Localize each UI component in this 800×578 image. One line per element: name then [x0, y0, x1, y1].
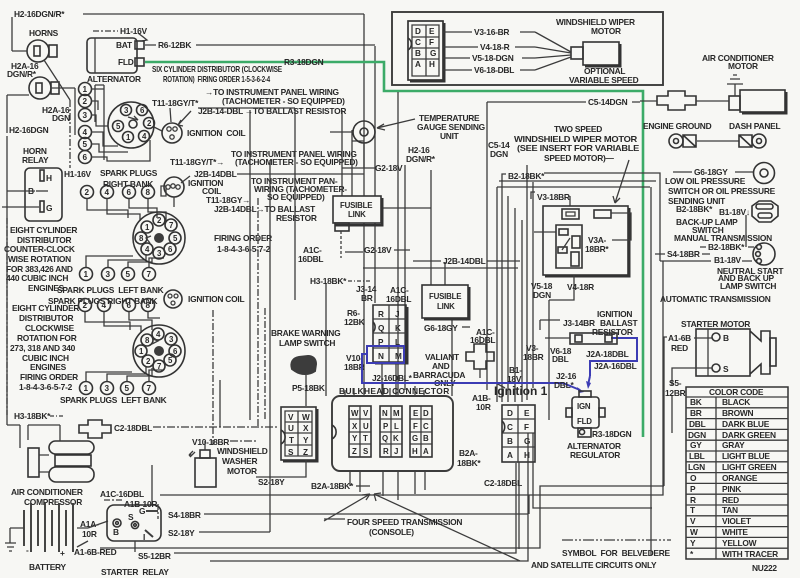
node WINDSHIELD WIPER MOTOR label [556, 17, 635, 36]
svg-text:J2B-14DBL: J2B-14DBL [443, 256, 486, 266]
svg-text:J2A-18DBL: J2A-18DBL [586, 349, 629, 359]
svg-text:273, 318 AND 340: 273, 318 AND 340 [10, 343, 76, 353]
svg-text:N: N [382, 409, 388, 418]
spark plug terminals 1357 row lower [80, 382, 156, 395]
svg-text:BR: BR [690, 408, 702, 418]
svg-text:B1-18V↓: B1-18V↓ [719, 207, 750, 217]
wire blue ballast branch [586, 338, 637, 389]
svg-text:3: 3 [83, 111, 88, 120]
bulkhead connector main [332, 396, 453, 471]
node AIR CONDITIONER MOTOR label [702, 53, 774, 71]
svg-text:12BR: 12BR [665, 388, 686, 398]
svg-text:VARIABLE SPEED: VARIABLE SPEED [569, 75, 639, 85]
color code table [686, 387, 788, 559]
svg-text:BAT: BAT [116, 40, 133, 50]
svg-text:S2-18Y: S2-18Y [258, 477, 285, 487]
ignition coil second [161, 176, 190, 207]
svg-text:A: A [415, 60, 421, 69]
svg-text:6: 6 [127, 301, 132, 310]
connector RJQKPLNM [373, 305, 407, 396]
node STARTER RELAY label [101, 567, 169, 577]
ground symbol engine [669, 134, 696, 148]
svg-text:ALTERNATOR: ALTERNATOR [87, 74, 141, 84]
svg-text:U: U [288, 424, 294, 433]
svg-text:3: 3 [105, 384, 110, 393]
note eight cylinder ccw block [4, 225, 77, 293]
svg-text:SPARK PLUGS LEFT BANK: SPARK PLUGS LEFT BANK [57, 285, 164, 295]
svg-text:BRAKE WARNING: BRAKE WARNING [271, 328, 340, 338]
node S2-18Y label vw [258, 477, 285, 487]
svg-text:4: 4 [105, 188, 110, 197]
svg-text:18V: 18V [507, 374, 522, 384]
note IGNITION BALLAST RESISTOR [592, 309, 638, 337]
svg-text:DASH PANEL: DASH PANEL [729, 121, 780, 131]
brake warning lamp switch [291, 356, 316, 406]
neutral start switch [753, 243, 775, 265]
wire J2B-14-DBL run [198, 108, 520, 261]
node S4-18BR label right [655, 204, 710, 261]
svg-text:6: 6 [127, 188, 132, 197]
spark plug terminals 2468 row lower [79, 299, 155, 312]
svg-text:RESISTOR: RESISTOR [276, 213, 317, 223]
svg-text:X: X [303, 424, 309, 433]
node OPTIONAL VARIABLE SPEED label [569, 66, 639, 85]
node R3-18DGN label [284, 57, 324, 67]
svg-text:DGN: DGN [490, 149, 508, 159]
wire middle vertical trunks [250, 92, 533, 463]
svg-text:C5-14DGN: C5-14DGN [588, 97, 628, 107]
svg-text:LINK: LINK [437, 302, 455, 311]
svg-text:1: 1 [84, 270, 89, 279]
svg-text:RED: RED [671, 343, 688, 353]
svg-text:SYMBOL FOR BELVEDERE: SYMBOL FOR BELVEDERE [562, 548, 671, 558]
fusible link lower [422, 285, 469, 319]
svg-text:L: L [394, 422, 399, 431]
svg-text:G: G [412, 434, 418, 443]
node J2B-14DBL ballast note 2 [214, 204, 317, 223]
svg-text:H2-16DGN/R*: H2-16DGN/R* [14, 9, 65, 19]
svg-text:H1-16V: H1-16V [64, 169, 92, 179]
svg-text:+: + [60, 548, 65, 558]
node A1B-10R label mid [472, 393, 491, 412]
note VALIANT AND BARRACUDA ONLY [413, 352, 505, 388]
svg-text:BK: BK [690, 397, 702, 407]
node R3-18DGN label regulator [592, 429, 632, 439]
svg-text:EIGHT CYLINDER: EIGHT CYLINDER [10, 225, 77, 235]
svg-text:T11-18GY/T*→: T11-18GY/T*→ [170, 157, 224, 167]
svg-text:A: A [423, 447, 429, 456]
svg-text:LBL: LBL [689, 451, 705, 461]
node six cylinder distributor note [152, 64, 283, 84]
node V6-18 DBL label [550, 346, 572, 364]
svg-text:J2A-16DBL: J2A-16DBL [594, 361, 637, 371]
svg-text:N: N [378, 352, 384, 361]
node R6-12BK label mid [344, 308, 365, 327]
node V5-18 DGN label [531, 281, 553, 300]
node ignition coil stacked label [188, 178, 223, 196]
svg-text:DARK BLUE: DARK BLUE [722, 419, 770, 429]
node J2B-14DBL label second [194, 169, 364, 179]
svg-text:DGN/R*: DGN/R* [7, 69, 37, 79]
svg-text:WINDSHIELD: WINDSHIELD [217, 446, 268, 456]
node to instrument panel note 3 [251, 176, 347, 202]
svg-text:5: 5 [83, 140, 88, 149]
node B1- 18V label [507, 365, 522, 384]
backup lamp switch [752, 201, 778, 222]
svg-text:P5-18BK: P5-18BK [292, 383, 325, 393]
svg-text:7: 7 [147, 270, 152, 279]
node H2A-16 DGN label [42, 105, 70, 123]
svg-text:C2-18DBL: C2-18DBL [114, 423, 152, 433]
svg-text:V3-16-BR: V3-16-BR [474, 27, 509, 37]
wire horn leads [7, 51, 75, 168]
svg-text:PINK: PINK [722, 484, 741, 494]
svg-text:Y: Y [303, 436, 309, 445]
node NU222 label [752, 563, 777, 573]
node V6-18-DBL label [474, 65, 514, 75]
node FIRING ORDER label [214, 233, 272, 254]
svg-text:B: B [723, 333, 729, 343]
svg-text:V: V [288, 413, 294, 422]
svg-text:B2-18BK*: B2-18BK* [508, 171, 545, 181]
node A1B-10R label relay [104, 499, 158, 519]
svg-text:J3-14BR: J3-14BR [563, 318, 595, 328]
bulkhead grid NMPLQKRJ [380, 406, 402, 457]
svg-text:VIOLET: VIOLET [722, 516, 752, 526]
node S2-18Y label relay [168, 463, 270, 538]
svg-text:R3-18DGN: R3-18DGN [284, 57, 324, 67]
svg-text:SO EQUIPPED): SO EQUIPPED) [267, 192, 325, 202]
node A1C-16DBL label mid [386, 285, 411, 304]
node SPARK PLUGS LEFT BANK label [57, 285, 164, 295]
svg-text:ENGINES: ENGINES [30, 362, 67, 372]
svg-text:(TACHOMETER - SO EQUIPPED): (TACHOMETER - SO EQUIPPED) [235, 157, 358, 167]
svg-text:D: D [415, 27, 421, 36]
node SPARK PLUGS RIGHT BANK label 2 [48, 296, 157, 306]
node B2-18BK* label manual [700, 242, 754, 252]
svg-text:E: E [429, 27, 435, 36]
svg-text:Q: Q [378, 324, 385, 333]
node HORN RELAY label [22, 146, 49, 165]
node Ignition 1 blue label [494, 384, 548, 398]
svg-text:B1-18V: B1-18V [714, 255, 742, 265]
node V3-16-BR label [474, 27, 509, 37]
wire dash-dot trunks [152, 198, 265, 505]
svg-text:V4-18-R: V4-18-R [480, 42, 510, 52]
svg-text:LAMP SWITCH: LAMP SWITCH [720, 281, 776, 291]
svg-text:TWO SPEED: TWO SPEED [554, 124, 602, 134]
resistor ignition ballast [545, 333, 617, 344]
svg-text:G: G [46, 203, 52, 213]
horn upper [27, 40, 57, 62]
svg-text:A1-6B: A1-6B [668, 333, 691, 343]
svg-text:S: S [128, 512, 134, 522]
svg-text:R: R [383, 447, 389, 456]
node T11-18GY/T* label [152, 98, 199, 108]
svg-text:V6-18-DBL: V6-18-DBL [474, 65, 514, 75]
node J3-14BR label right [540, 318, 595, 330]
svg-text:ROTATION FOR: ROTATION FOR [17, 333, 77, 343]
node ALTERNATOR label [87, 74, 141, 84]
svg-text:AUTOMATIC TRANSMISSION: AUTOMATIC TRANSMISSION [660, 294, 771, 304]
svg-text:18BK*: 18BK* [457, 458, 481, 468]
wire chain to distributor cap [91, 85, 150, 161]
svg-text:5: 5 [125, 384, 130, 393]
fusible link upper [333, 196, 382, 258]
svg-text:BULKHEAD CONNECTOR: BULKHEAD CONNECTOR [339, 386, 449, 396]
svg-text:DARK GREEN: DARK GREEN [722, 430, 776, 440]
node B2A- 18BK* label right [457, 448, 481, 468]
svg-text:FUSIBLE: FUSIBLE [340, 201, 372, 210]
node A1-6B RED label [664, 333, 712, 486]
svg-text:GRAY: GRAY [722, 440, 745, 450]
svg-text:STARTER MOTOR: STARTER MOTOR [681, 319, 750, 329]
svg-text:SWITCH OR OIL PRESSURE: SWITCH OR OIL PRESSURE [668, 186, 776, 196]
svg-text:D: D [423, 409, 429, 418]
node V3-18BR label [531, 192, 570, 210]
node BAT terminal label [116, 40, 133, 50]
svg-text:S: S [363, 447, 368, 456]
svg-text:FIRING ORDER: FIRING ORDER [214, 233, 272, 243]
svg-text:FOUR SPEED TRANSMISSION: FOUR SPEED TRANSMISSION [347, 517, 462, 527]
svg-text:V5-18-DGN: V5-18-DGN [472, 53, 514, 63]
svg-text:6: 6 [83, 153, 88, 162]
svg-text:G2-18V: G2-18V [364, 245, 392, 255]
wire insert leads [443, 32, 571, 70]
svg-text:H1-16V: H1-16V [120, 26, 148, 36]
wire R6-12BK from BAT [145, 45, 375, 303]
node G2-18V label second [363, 245, 518, 268]
ignition switch connector DECFBGAH [502, 405, 535, 462]
svg-text:12BK: 12BK [344, 317, 365, 327]
svg-text:G: G [524, 437, 530, 446]
node A1C-16DBL label relay [100, 489, 144, 499]
svg-text:B: B [507, 437, 513, 446]
node TEMPERATURE GAUGE SENDING UNIT label [417, 113, 485, 141]
insert box optional variable speed [392, 12, 663, 85]
svg-text:Y: Y [690, 538, 696, 548]
svg-text:YELLOW: YELLOW [722, 538, 757, 548]
svg-text:LINK: LINK [348, 210, 366, 219]
node V3A-18BR* label [585, 235, 609, 254]
svg-text:H3-18BK*: H3-18BK* [14, 411, 51, 421]
connector cross c5 [640, 91, 729, 110]
note BACK-UP LAMP SWITCH [676, 217, 738, 235]
svg-text:I: I [143, 532, 145, 542]
svg-text:1: 1 [83, 85, 88, 94]
svg-text:S: S [288, 448, 294, 457]
node AIR CONDITIONER COMPRESSOR label [11, 487, 83, 507]
note SYMBOL FOR BELVEDERE [531, 540, 671, 570]
node S5-12BR label right [665, 368, 712, 433]
svg-text:16DBL: 16DBL [298, 254, 323, 264]
svg-text:S2-18Y: S2-18Y [168, 528, 195, 538]
ignition coil third [164, 290, 182, 308]
node ENGINE GROUND DASH PANEL label [643, 121, 780, 131]
wire plugs to cap 8cyl cw [85, 312, 163, 381]
svg-text:H: H [46, 173, 52, 183]
svg-text:E: E [524, 409, 530, 418]
node J2B-14DBL label mid [443, 256, 486, 266]
svg-text:DGN: DGN [688, 430, 706, 440]
node J3-14 BR label [356, 284, 377, 303]
insert connector DECFBGAH [408, 21, 444, 81]
distributor six cylinder [108, 102, 155, 148]
node WINDSHIELD WASHER MOTOR label [217, 446, 268, 476]
node V4-18R label [567, 282, 594, 292]
wire arrow to wiper motor [613, 160, 629, 203]
node B1-18V label neutral [660, 255, 752, 265]
svg-text:C: C [423, 422, 429, 431]
svg-text:LOW OIL PRESSURE: LOW OIL PRESSURE [665, 176, 746, 186]
svg-text:SPARK PLUGS: SPARK PLUGS [100, 168, 158, 178]
node V4-18-R label [480, 42, 510, 52]
svg-text:1-8-4-3-6-5-7-2: 1-8-4-3-6-5-7-2 [19, 382, 73, 392]
ignition coil six cylinder [154, 108, 191, 143]
node FLD terminal label [118, 57, 134, 67]
svg-text:FIRING ORDER: FIRING ORDER [20, 372, 78, 382]
node S4-18BR label relay [168, 510, 528, 520]
svg-text:ORANGE: ORANGE [722, 473, 758, 483]
wiper motor two speed [534, 206, 631, 420]
svg-text:T11-18GY/T*: T11-18GY/T* [152, 98, 199, 108]
node V10-18BR label mid [344, 353, 365, 372]
svg-text:H3-18BK*: H3-18BK* [310, 276, 347, 286]
svg-text:WISE ROTATION: WISE ROTATION [8, 254, 71, 264]
terminal chain 1-6 six cylinder [79, 83, 92, 164]
svg-text:2: 2 [83, 97, 88, 106]
svg-text:K: K [393, 434, 399, 443]
svg-text:B2A-: B2A- [459, 448, 478, 458]
svg-text:1: 1 [84, 384, 89, 393]
svg-text:2: 2 [83, 301, 88, 310]
node A1C-16DBL label [298, 245, 323, 264]
spark plug terminals 1357 row [80, 268, 156, 281]
svg-text:H: H [524, 451, 530, 460]
node BRAKE WARNING LAMP SWITCH label [271, 328, 340, 348]
svg-text:LIGHT BLUE: LIGHT BLUE [722, 451, 770, 461]
svg-text:UNIT: UNIT [440, 131, 460, 141]
node H3-18BK* label [310, 276, 372, 286]
svg-text:CLOCKWISE: CLOCKWISE [25, 323, 75, 333]
svg-text:AIR CONDITIONER: AIR CONDITIONER [11, 487, 83, 497]
wiper motor optional [571, 42, 620, 66]
node J2A-18DBL label [586, 349, 629, 359]
svg-text:BR: BR [361, 293, 373, 303]
svg-text:T: T [289, 436, 294, 445]
bulkhead grid EDFCGBHA [410, 406, 432, 457]
svg-text:A1B-10R: A1B-10R [124, 499, 157, 509]
svg-text:B: B [415, 49, 421, 58]
windshield washer motor [189, 441, 216, 487]
node B1-18V label backup [719, 207, 750, 217]
svg-text:BATTERY: BATTERY [29, 562, 67, 572]
svg-text:COUNTER-CLOCK: COUNTER-CLOCK [4, 244, 75, 254]
svg-text:16DBL: 16DBL [386, 294, 411, 304]
node B2-18BK* label right [676, 204, 713, 214]
air conditioner compressor [7, 425, 94, 482]
air conditioner motor [727, 75, 786, 113]
svg-text:W: W [690, 527, 698, 537]
svg-text:S5-12BR: S5-12BR [138, 551, 171, 561]
svg-text:J: J [394, 447, 398, 456]
node G2-18V label [375, 163, 403, 173]
svg-text:EIGHT CYLINDER: EIGHT CYLINDER [12, 303, 79, 313]
svg-text:G: G [430, 49, 436, 58]
oil pressure sending unit [754, 163, 775, 184]
svg-text:U: U [363, 422, 369, 431]
svg-text:C: C [507, 423, 513, 432]
temperature gauge sending unit [330, 119, 415, 168]
svg-text:B2-18BK*: B2-18BK* [708, 242, 745, 252]
svg-text:BROWN: BROWN [722, 408, 754, 418]
svg-text:DBL: DBL [689, 419, 706, 429]
svg-text:LIGHT GREEN: LIGHT GREEN [722, 462, 777, 472]
node H2-16 DGN/R* label [406, 145, 436, 164]
svg-text:DGN: DGN [533, 290, 551, 300]
svg-text:LGN: LGN [688, 462, 705, 472]
svg-text:F: F [524, 423, 529, 432]
svg-text:WHITE: WHITE [722, 527, 748, 537]
node BULKHEAD CONNECTOR label [339, 386, 449, 396]
node H1-16V relay label [64, 169, 92, 179]
svg-text:P: P [383, 422, 388, 431]
svg-text:Z: Z [303, 448, 308, 457]
svg-text:(SEE INSERT FOR VARIABLE: (SEE INSERT FOR VARIABLE [517, 143, 640, 153]
svg-text:Q: Q [382, 434, 388, 443]
wire R3-18DGN green field wire [145, 62, 643, 437]
svg-text:SIX CYLINDER DISTRIBUTOR (CLOC: SIX CYLINDER DISTRIBUTOR (CLOCKWISE [152, 64, 283, 74]
wire plugs to cap 8cyl ccw [86, 199, 166, 267]
svg-text:SPARK PLUGS LEFT BANK: SPARK PLUGS LEFT BANK [60, 395, 167, 405]
svg-text:C: C [415, 38, 421, 47]
svg-text:4: 4 [83, 128, 88, 137]
node P5-18BK label [292, 383, 325, 393]
svg-text:10R: 10R [476, 402, 491, 412]
wire left dashed bracket [6, 218, 8, 415]
svg-text:2: 2 [85, 188, 90, 197]
svg-text:440 CUBIC INCH: 440 CUBIC INCH [6, 273, 68, 283]
node B2-18BK* label mid [502, 171, 545, 181]
svg-text:O: O [690, 473, 697, 483]
svg-text:B: B [113, 527, 119, 537]
svg-text:DISTRIBUTOR: DISTRIBUTOR [19, 313, 74, 323]
svg-text:1-8-4-3-6-5-7-2: 1-8-4-3-6-5-7-2 [217, 244, 271, 254]
svg-text:IGNITION COIL: IGNITION COIL [188, 294, 244, 304]
node A1A-10R label [80, 519, 108, 539]
node SPARK PLUGS LEFT BANK lower label [60, 395, 167, 405]
svg-text:DGN/R*: DGN/R* [406, 154, 436, 164]
svg-text:A: A [507, 451, 513, 460]
svg-text:TAN: TAN [722, 505, 738, 515]
svg-text:MOTOR: MOTOR [728, 61, 758, 71]
svg-text:AND SATELLITE CIRCUITS ONLY: AND SATELLITE CIRCUITS ONLY [531, 560, 657, 570]
svg-text:B: B [423, 434, 429, 443]
svg-text:S5-: S5- [669, 378, 682, 388]
node IGNITION COIL label third [188, 294, 244, 304]
note MANUAL TRANSMISSION [674, 233, 772, 243]
wire blue ignition 1 [362, 346, 584, 393]
svg-text:S4-18BR: S4-18BR [168, 510, 201, 520]
svg-text:LAMP SWITCH: LAMP SWITCH [279, 338, 335, 348]
relay horn [2, 168, 62, 221]
svg-text:WITH TRACER: WITH TRACER [722, 549, 778, 559]
connector cross valiant [466, 336, 494, 378]
svg-text:DBL: DBL [552, 354, 569, 364]
battery [5, 503, 88, 558]
svg-text:S: S [723, 364, 729, 374]
note eight cylinder cw block [10, 303, 79, 392]
